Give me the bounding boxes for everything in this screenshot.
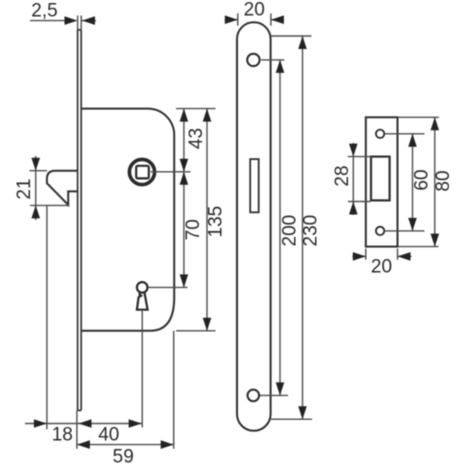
strike top screw hole	[376, 130, 384, 138]
dim 21 line	[35, 156, 37, 220]
svg-text:200: 200	[280, 215, 301, 247]
extension line latch face (down)	[46, 206, 48, 429]
arrow 28 bottom	[349, 202, 358, 215]
dim 21 extension line top	[30, 170, 48, 172]
dim 20 extension lines (top)	[238, 13, 271, 25]
extension line plate top tangent	[271, 35, 312, 37]
svg-text:20: 20	[371, 256, 392, 277]
arrow 70 bottom	[180, 274, 189, 287]
extension line top hole axis	[261, 59, 285, 61]
arrow 20 right	[271, 15, 284, 24]
strike bottom screw hole	[376, 227, 384, 235]
arrow 40 left	[79, 419, 92, 428]
arrow 20 strike left	[353, 252, 366, 261]
dim 20 strike right tail	[398, 255, 412, 257]
svg-text:70: 70	[183, 219, 204, 240]
dim 20 line left tail	[225, 19, 238, 21]
dim 43 line	[183, 109, 185, 172]
dim 20 line right tail	[271, 19, 284, 21]
dim 20 strike left tail	[352, 255, 366, 257]
arrow 21 top	[31, 158, 40, 171]
extension line plate bottom tangent	[271, 418, 312, 420]
dim 28 line	[352, 143, 354, 215]
dim 20 strike extension lines	[366, 249, 398, 260]
arrow 200 top	[276, 60, 285, 73]
arrow 135 top	[203, 109, 212, 122]
svg-text:28: 28	[332, 165, 353, 186]
strike plate outline	[366, 117, 398, 246]
arrow 230 top	[298, 36, 307, 49]
arrow 2,5 right	[82, 16, 95, 25]
arrow 40 right	[129, 419, 142, 428]
dim 80 line	[434, 117, 436, 246]
svg-text:20: 20	[244, 0, 265, 20]
arrow 2,5 left	[65, 16, 78, 25]
arrow 59 right	[161, 440, 174, 449]
arrow 18 left	[34, 419, 47, 428]
bottom screw hole	[248, 390, 260, 402]
svg-text:21: 21	[14, 178, 35, 199]
dimension 2,5 leader line	[30, 20, 65, 22]
arrow 43 bottom	[180, 159, 189, 172]
extension line body top	[176, 108, 216, 110]
spindle square hole	[136, 166, 149, 179]
arrow 59 left	[77, 440, 90, 449]
arrow 60 bottom	[408, 218, 417, 231]
extension line keyhole axis (down)	[141, 311, 143, 428]
faceplate edge extension lines (top)	[78, 16, 82, 30]
extension line body right (down)	[173, 331, 175, 449]
latch bolt	[47, 171, 77, 205]
strike cutout	[371, 157, 390, 201]
extension line faceplate (down)	[76, 410, 78, 448]
svg-text:230: 230	[301, 215, 322, 247]
keyhole slot	[137, 292, 148, 310]
extension line strike bottom edge	[398, 246, 439, 248]
arrow 20 strike right	[398, 252, 411, 261]
dim 59 line	[77, 444, 174, 446]
svg-text:2,5: 2,5	[31, 0, 57, 21]
extension line body bottom	[176, 330, 216, 332]
arrow 200 bottom	[276, 382, 285, 395]
arrow 21 bottom	[31, 205, 40, 218]
dim 21 extension line bottom	[30, 204, 68, 206]
arrow 20 left	[225, 15, 238, 24]
extension line strike top edge	[398, 116, 439, 118]
dim 200 line	[279, 60, 281, 396]
extension line bottom hole axis	[260, 394, 288, 396]
keyhole circle	[137, 282, 148, 293]
dim 18/40 line	[25, 423, 142, 425]
top screw hole	[247, 54, 259, 66]
lock body outline	[81, 109, 174, 331]
arrow 28 top	[349, 144, 358, 157]
svg-text:135: 135	[205, 206, 226, 238]
svg-text:18: 18	[52, 424, 73, 445]
dim 60 line	[412, 134, 414, 231]
arrow 43 top	[180, 109, 189, 122]
arrow 230 bottom	[298, 406, 307, 419]
faceplate edge-on (side view)	[78, 30, 82, 411]
arrow 60 top	[408, 134, 417, 147]
dim 230 line	[302, 36, 304, 419]
spindle follower circle	[129, 159, 154, 184]
svg-text:59: 59	[113, 446, 134, 467]
svg-text:40: 40	[98, 424, 119, 445]
dimension 2,5 right tail	[82, 20, 96, 22]
arrow 80 top	[431, 117, 440, 130]
arrow 80 bottom	[431, 234, 440, 247]
extension line spindle axis	[151, 171, 191, 173]
svg-text:60: 60	[411, 169, 432, 190]
svg-text:80: 80	[433, 170, 454, 191]
extension line keyhole axis	[149, 286, 188, 288]
extension line strike bottom hole	[385, 230, 425, 232]
dim 135 line	[206, 109, 208, 331]
follower slot	[250, 159, 259, 212]
faceplate front outline	[237, 22, 271, 431]
dim 28 extension bottom	[348, 201, 371, 203]
arrow 70 top	[180, 172, 189, 185]
dim 70 line	[183, 172, 185, 288]
arrow 135 bottom	[203, 318, 212, 331]
svg-text:43: 43	[186, 128, 207, 149]
dim 28 extension top	[348, 156, 372, 158]
extension line strike top hole	[385, 133, 425, 135]
